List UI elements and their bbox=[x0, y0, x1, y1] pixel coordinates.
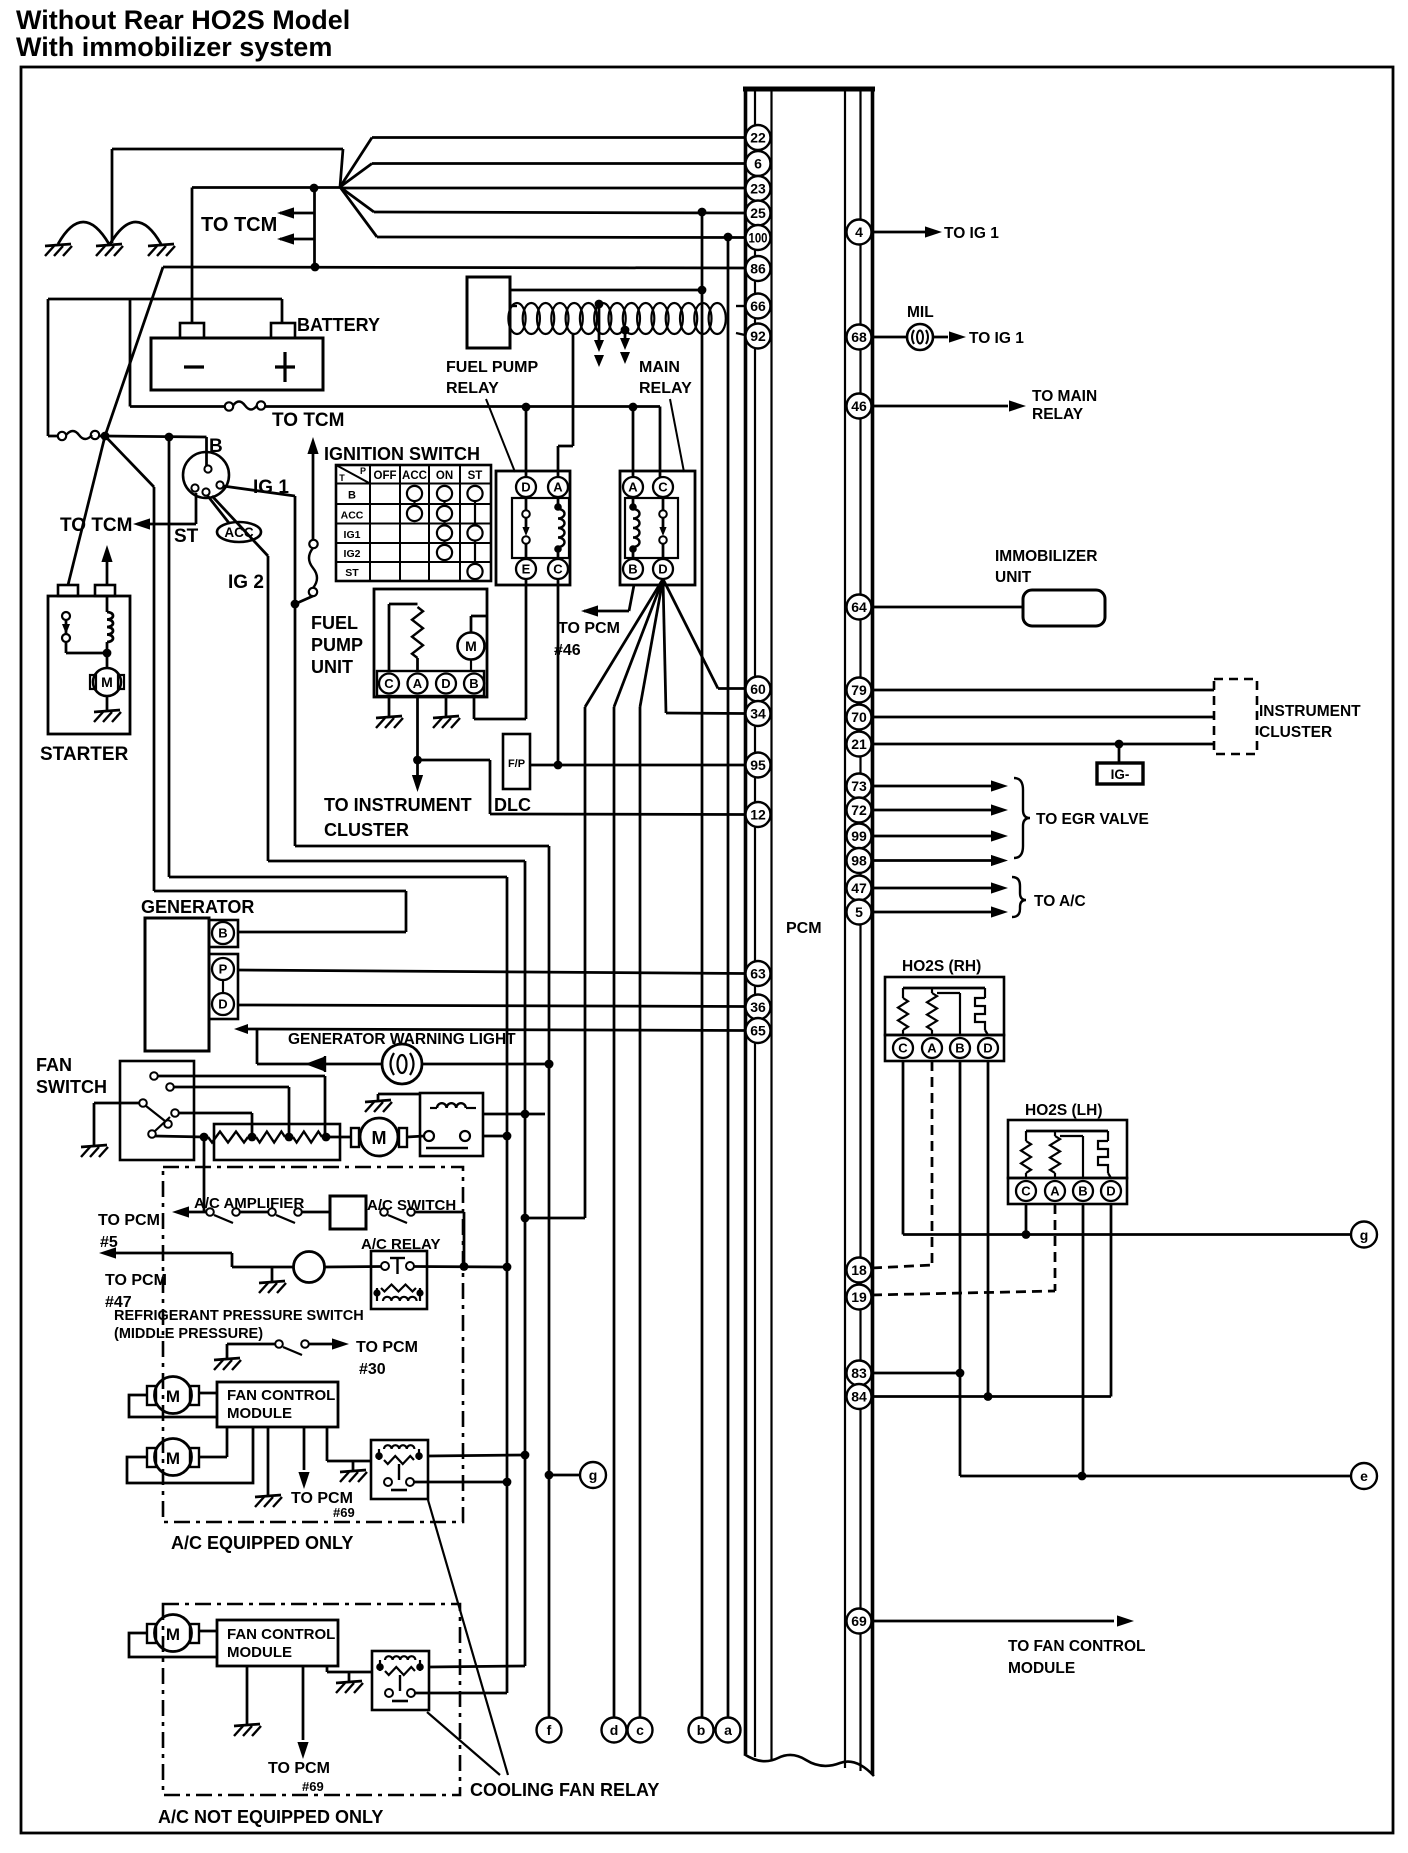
label TO TCM (top) bbox=[201, 214, 277, 236]
svg-text:D: D bbox=[218, 997, 227, 1012]
fan motor connector box bbox=[420, 1093, 483, 1156]
wire to pin 23 bbox=[340, 187, 745, 190]
label REFRIGERANT PRESSURE SWITCH bbox=[114, 1308, 364, 1342]
wire resistor tap down to AC amplifier bbox=[203, 1137, 206, 1212]
wire ST contact to TO TCM arrow bbox=[133, 493, 196, 530]
svg-text:PUMP: PUMP bbox=[311, 635, 363, 655]
ground module lower bbox=[234, 1666, 261, 1736]
label TO TCM (ignition) bbox=[272, 410, 344, 431]
wire M3 to module bbox=[129, 1631, 217, 1657]
label TO PCM 5 bbox=[98, 1212, 160, 1251]
svg-text:4: 4 bbox=[855, 224, 863, 240]
svg-text:D: D bbox=[521, 480, 530, 495]
svg-text:C: C bbox=[384, 676, 394, 691]
label A/C AMPLIFIER bbox=[194, 1195, 304, 1212]
svg-text:UNIT: UNIT bbox=[311, 657, 353, 677]
wire TO TCM arrow 1 bbox=[277, 207, 315, 218]
svg-text:CLUSTER: CLUSTER bbox=[1259, 724, 1332, 741]
svg-text:5: 5 bbox=[855, 904, 863, 920]
svg-text:MODULE: MODULE bbox=[227, 1644, 292, 1661]
svg-text:FAN CONTROL: FAN CONTROL bbox=[227, 1387, 335, 1404]
svg-text:Without Rear HO2S Model: Without Rear HO2S Model bbox=[16, 5, 350, 35]
wire TO PCM 5 arrow bbox=[172, 1206, 206, 1217]
fan control module upper bbox=[217, 1382, 338, 1427]
svg-text:C: C bbox=[1021, 1184, 1031, 1199]
main relay bbox=[620, 471, 695, 585]
wire junction to starter bbox=[68, 436, 105, 585]
label BATTERY bbox=[297, 315, 380, 335]
wire relay C to FP line bbox=[554, 579, 563, 769]
wire IG1 from rotor bbox=[223, 486, 295, 496]
label TO PCM 69 lower bbox=[268, 1760, 330, 1794]
pin 60 (PCM left) bbox=[746, 677, 771, 702]
svg-text:C: C bbox=[553, 562, 563, 577]
svg-text:OFF: OFF bbox=[374, 470, 397, 482]
wire TO TCM branch vertical bbox=[313, 188, 316, 267]
label TO IG 1 (pin 4) bbox=[944, 225, 999, 242]
fan motor M bbox=[351, 1118, 424, 1156]
wire main relay D to node d bbox=[614, 579, 663, 1717]
svg-text:STARTER: STARTER bbox=[40, 744, 129, 765]
wiring harness coil loops bbox=[508, 303, 745, 335]
wire generator B feed stair bbox=[105, 436, 406, 932]
svg-text:A/C RELAY: A/C RELAY bbox=[361, 1236, 440, 1253]
wire diagonal to fuse junction bbox=[105, 267, 163, 436]
svg-text:E: E bbox=[522, 562, 531, 577]
wire EGR arrow pin y=836 bbox=[873, 830, 1008, 841]
svg-text:TO TCM: TO TCM bbox=[60, 515, 132, 536]
svg-text:TO IG 1: TO IG 1 bbox=[944, 225, 999, 242]
node g right circle bbox=[1351, 1222, 1377, 1248]
label B bbox=[209, 436, 223, 457]
pin 4 (PCM right) bbox=[847, 220, 872, 245]
wire pin 70 to instrument cluster bbox=[873, 716, 1214, 719]
wire to pin 6 bbox=[372, 162, 745, 165]
ground fan connector bbox=[365, 1094, 420, 1112]
fan motor M3 bbox=[147, 1615, 199, 1652]
label A/C SWITCH bbox=[367, 1197, 456, 1214]
wire generator D to pin 36 bbox=[238, 1005, 745, 1007]
svg-text:ST: ST bbox=[174, 526, 199, 547]
battery bbox=[151, 323, 323, 390]
label FUEL PUMP UNIT bbox=[311, 613, 363, 677]
PCM label bbox=[786, 920, 822, 937]
wire relay2 top to stair bbox=[429, 1666, 525, 1667]
svg-text:34: 34 bbox=[750, 706, 766, 722]
pin 79 (PCM right) bbox=[847, 678, 872, 703]
ground fan switch bbox=[81, 1103, 139, 1157]
wire FP to pin 95 bbox=[530, 764, 745, 767]
svg-text:B: B bbox=[218, 926, 227, 941]
wire LH B to node e bbox=[1082, 1204, 1085, 1476]
A/C switch box bbox=[330, 1196, 366, 1229]
label IG 1 bbox=[253, 477, 289, 498]
label TO TCM (starter) bbox=[60, 515, 132, 536]
svg-text:COOLING FAN RELAY: COOLING FAN RELAY bbox=[470, 1780, 659, 1800]
pin 100 (PCM left) bbox=[746, 225, 771, 250]
ground trio with arcs bbox=[45, 149, 175, 256]
svg-text:B: B bbox=[348, 490, 356, 502]
wire battery plus rail bbox=[48, 299, 282, 436]
svg-text:A: A bbox=[628, 480, 638, 495]
wire connector to node b bbox=[510, 286, 706, 295]
svg-text:36: 36 bbox=[750, 999, 766, 1015]
pin 63 (PCM left) bbox=[746, 961, 771, 986]
ground cooling fan relay 1 bbox=[340, 1461, 367, 1482]
pin 68 (PCM right) bbox=[847, 325, 872, 350]
node b bbox=[689, 212, 714, 1743]
node a bbox=[716, 237, 741, 1743]
pin 18 (PCM right) bbox=[847, 1258, 872, 1283]
A/C amplifier contacts bbox=[206, 1208, 330, 1223]
svg-text:72: 72 bbox=[851, 802, 867, 818]
fan motor M1 bbox=[147, 1377, 199, 1414]
ACC oval contact bbox=[207, 495, 261, 542]
svg-text:UNIT: UNIT bbox=[995, 569, 1032, 586]
wire RH C to node g bbox=[903, 1061, 1351, 1239]
label STARTER bbox=[40, 744, 129, 765]
pin 72 (PCM right) bbox=[847, 798, 872, 823]
svg-text:#69: #69 bbox=[333, 1505, 355, 1520]
wire RH B to node e bbox=[956, 1061, 1351, 1480]
svg-text:F/P: F/P bbox=[508, 758, 525, 770]
svg-text:A: A bbox=[413, 676, 423, 691]
svg-text:INSTRUMENT: INSTRUMENT bbox=[1259, 703, 1361, 720]
wire TO TCM fusible link (IG1 tap) bbox=[291, 437, 319, 608]
wire M2 to module bbox=[127, 1427, 253, 1483]
ground fuel pump C bbox=[376, 697, 403, 728]
harness connector box bbox=[467, 277, 510, 348]
ground compressor bbox=[259, 1267, 286, 1293]
fuel pump unit bbox=[374, 589, 487, 697]
svg-text:D: D bbox=[658, 562, 667, 577]
svg-text:P: P bbox=[360, 466, 366, 476]
ignition switch rotor bbox=[183, 452, 229, 498]
harness branch arrow 1 bbox=[594, 300, 604, 367]
label IGNITION SWITCH bbox=[324, 444, 480, 464]
svg-text:GENERATOR: GENERATOR bbox=[141, 897, 254, 917]
svg-text:B: B bbox=[1078, 1184, 1087, 1199]
fan control module lower bbox=[217, 1620, 338, 1666]
label TO A/C bbox=[1034, 893, 1086, 910]
cooling fan relay 1 bbox=[371, 1440, 428, 1499]
pin 64 (PCM right) bbox=[847, 595, 872, 620]
svg-text:TO PCM: TO PCM bbox=[558, 620, 620, 637]
wire EGR arrow pin y=810 bbox=[873, 804, 1008, 815]
svg-text:TO EGR VALVE: TO EGR VALVE bbox=[1036, 811, 1149, 828]
wire pin 4 TO IG 1 bbox=[873, 226, 942, 237]
title text bbox=[16, 5, 350, 62]
svg-text:21: 21 bbox=[851, 736, 867, 752]
wire A/C arrow pin y=912 bbox=[873, 906, 1008, 917]
label FUEL PUMP RELAY bbox=[446, 359, 538, 397]
fuel pump relay bbox=[496, 471, 570, 585]
wire fanout diagonals to PCM pins bbox=[340, 138, 377, 238]
label A/C EQUIPPED ONLY bbox=[171, 1533, 353, 1553]
node fuse junction bbox=[101, 432, 110, 441]
svg-text:C: C bbox=[658, 480, 668, 495]
wire M1 to module bbox=[129, 1393, 217, 1417]
wire arrow to instrument cluster bbox=[412, 760, 423, 792]
svg-text:#30: #30 bbox=[359, 1361, 386, 1378]
svg-text:REFRIGERANT PRESSURE SWITCH: REFRIGERANT PRESSURE SWITCH bbox=[114, 1308, 364, 1324]
generator warning light bbox=[257, 1044, 553, 1084]
pin 12 (PCM left) bbox=[746, 802, 771, 827]
svg-text:TO A/C: TO A/C bbox=[1034, 893, 1086, 910]
svg-text:M: M bbox=[372, 1128, 387, 1148]
svg-text:98: 98 bbox=[851, 853, 867, 869]
svg-text:79: 79 bbox=[851, 682, 867, 698]
wire connector to relay verticals bbox=[483, 1114, 545, 1136]
svg-text:99: 99 bbox=[851, 828, 867, 844]
wire starter coil TO TCM arrow up bbox=[101, 545, 112, 585]
HO2S (RH) sensor bbox=[885, 977, 1004, 1061]
pin 92 (PCM left) bbox=[746, 324, 771, 349]
svg-text:FUEL PUMP: FUEL PUMP bbox=[446, 359, 538, 376]
svg-text:IG2: IG2 bbox=[344, 548, 361, 560]
label ST bbox=[174, 526, 199, 547]
svg-text:46: 46 bbox=[851, 398, 867, 414]
svg-text:TO INSTRUMENT: TO INSTRUMENT bbox=[324, 795, 472, 815]
pin 66 (PCM left) bbox=[746, 294, 771, 319]
node e circle bbox=[1351, 1463, 1377, 1489]
leader fuel pump relay bbox=[486, 399, 515, 472]
wire TO PCM 47 arrow bbox=[99, 1247, 232, 1267]
svg-text:92: 92 bbox=[750, 328, 766, 344]
wire battery-minus riser and top run bbox=[112, 149, 343, 323]
wire LH C to node g bbox=[1025, 1204, 1028, 1235]
svg-text:C: C bbox=[898, 1041, 908, 1056]
svg-text:69: 69 bbox=[851, 1613, 867, 1629]
ground fuel pump D bbox=[433, 697, 460, 728]
starter bbox=[48, 585, 130, 734]
svg-text:FUEL: FUEL bbox=[311, 613, 358, 633]
wire to pin 22 bbox=[372, 136, 745, 139]
instrument cluster dashed box bbox=[1214, 679, 1257, 754]
A/C switch contacts bbox=[380, 1208, 468, 1271]
fan switch bbox=[120, 1061, 194, 1160]
label TO MAIN RELAY bbox=[1032, 388, 1097, 423]
label COOLING FAN RELAY bbox=[470, 1780, 659, 1800]
svg-text:DLC: DLC bbox=[494, 795, 531, 815]
svg-text:A: A bbox=[927, 1041, 937, 1056]
pin 6 (PCM left) bbox=[746, 151, 771, 176]
svg-text:A/C EQUIPPED ONLY: A/C EQUIPPED ONLY bbox=[171, 1533, 353, 1553]
svg-text:TO MAIN: TO MAIN bbox=[1032, 388, 1097, 405]
wire TO TCM arrow 2 bbox=[277, 233, 315, 244]
wire warning light to pin 65 bbox=[234, 1024, 745, 1064]
svg-text:e: e bbox=[1360, 1468, 1368, 1484]
F/P connector bbox=[503, 734, 530, 789]
pin 22 (PCM left) bbox=[746, 125, 771, 150]
svg-text:A: A bbox=[553, 480, 563, 495]
svg-text:TO FAN CONTROL: TO FAN CONTROL bbox=[1008, 1638, 1146, 1655]
pin 46 (PCM right) bbox=[847, 394, 872, 419]
wire fuel pump B to relay E bbox=[474, 579, 526, 719]
svg-text:M: M bbox=[101, 674, 113, 690]
label TO EGR VALVE bbox=[1036, 811, 1149, 828]
svg-text:A: A bbox=[1050, 1184, 1060, 1199]
A/C compressor clutch circle bbox=[232, 1252, 381, 1283]
wire main relay B TO PCM 46 arrow bbox=[581, 585, 634, 617]
node c bbox=[628, 1718, 653, 1743]
wire IG1 stair to node f bbox=[295, 496, 553, 1717]
svg-text:M: M bbox=[465, 638, 477, 654]
node f bbox=[537, 1718, 562, 1743]
svg-text:18: 18 bbox=[851, 1262, 867, 1278]
brace A/C bbox=[1012, 877, 1026, 917]
svg-text:B: B bbox=[469, 676, 478, 691]
wire fuel pump A to pin 12 bbox=[413, 697, 745, 815]
refrigerant pressure switch contacts bbox=[227, 1338, 349, 1358]
wire junction to ignition B bbox=[105, 433, 207, 466]
pin 70 (PCM right) bbox=[847, 705, 872, 730]
wire to pin 100 bbox=[377, 233, 745, 242]
wire main relay D to pin 34 bbox=[663, 579, 745, 714]
wire to pin 25 bbox=[374, 208, 745, 217]
label TO IG 1 (pin 68) bbox=[969, 330, 1024, 347]
wire module lower TO PCM 69 arrow bbox=[297, 1666, 308, 1759]
ground cooling fan relay 2 bbox=[336, 1672, 363, 1693]
svg-text:A/C AMPLIFIER: A/C AMPLIFIER bbox=[194, 1195, 304, 1212]
svg-text:PCM: PCM bbox=[786, 920, 822, 937]
svg-text:6: 6 bbox=[754, 156, 762, 172]
svg-text:65: 65 bbox=[750, 1023, 766, 1039]
wire module TO PCM 69 arrow bbox=[298, 1427, 309, 1489]
svg-text:IGNITION SWITCH: IGNITION SWITCH bbox=[324, 444, 480, 464]
cooling fan relay 2 bbox=[372, 1651, 429, 1710]
svg-text:25: 25 bbox=[750, 205, 766, 221]
svg-text:ST: ST bbox=[468, 470, 483, 482]
table header labels bbox=[339, 466, 482, 579]
svg-text:P: P bbox=[219, 962, 228, 977]
svg-text:ST: ST bbox=[345, 567, 359, 579]
svg-text:70: 70 bbox=[851, 709, 867, 725]
wire pin 79 to instrument cluster bbox=[873, 689, 1214, 692]
svg-text:M: M bbox=[166, 1449, 180, 1468]
wire IG2 stair to cooling fan relays bbox=[268, 556, 529, 1666]
PCM module bus bbox=[743, 88, 875, 1776]
svg-text:d: d bbox=[610, 1722, 619, 1738]
svg-text:23: 23 bbox=[750, 181, 766, 197]
svg-text:M: M bbox=[166, 1625, 180, 1644]
svg-text:With immobilizer system: With immobilizer system bbox=[16, 32, 332, 62]
svg-text:FAN CONTROL: FAN CONTROL bbox=[227, 1626, 335, 1643]
pin 47 (PCM right) bbox=[847, 876, 872, 901]
immobilizer unit bbox=[873, 590, 1105, 626]
svg-text:73: 73 bbox=[851, 778, 867, 794]
node d bbox=[602, 1718, 627, 1743]
svg-text:MIL: MIL bbox=[907, 304, 934, 321]
pin 95 (PCM left) bbox=[746, 753, 771, 778]
svg-text:ON: ON bbox=[436, 470, 453, 482]
svg-text:a: a bbox=[724, 1722, 732, 1738]
label A/C NOT EQUIPPED ONLY bbox=[158, 1807, 383, 1827]
wire main relay D to node c bbox=[640, 579, 663, 1717]
svg-text:#69: #69 bbox=[302, 1779, 324, 1794]
ignition switch table bbox=[336, 465, 491, 581]
svg-text:FAN: FAN bbox=[36, 1055, 72, 1075]
label HO2S (RH) bbox=[902, 958, 981, 975]
svg-text:83: 83 bbox=[851, 1365, 867, 1381]
wire main relay D to pin 60 bbox=[663, 579, 745, 689]
svg-text:D: D bbox=[1106, 1184, 1115, 1199]
svg-text:f: f bbox=[547, 1722, 552, 1738]
label TO PCM 47 bbox=[105, 1272, 167, 1311]
label TO FAN CONTROL MODULE bbox=[1008, 1638, 1146, 1677]
wire generator P to pin 63 bbox=[238, 970, 745, 974]
svg-text:b: b bbox=[697, 1722, 706, 1738]
svg-text:60: 60 bbox=[750, 681, 766, 697]
svg-text:A/C NOT EQUIPPED ONLY: A/C NOT EQUIPPED ONLY bbox=[158, 1807, 383, 1827]
pin 36 (PCM left) bbox=[746, 995, 771, 1020]
pin 25 (PCM left) bbox=[746, 201, 771, 226]
wire EGR arrow pin y=786 bbox=[873, 780, 1008, 791]
svg-text:TO TCM: TO TCM bbox=[272, 410, 344, 431]
wire RH A dashed to pin 18 bbox=[872, 1061, 932, 1268]
wire relay2 bottom to stair bbox=[415, 1692, 507, 1695]
svg-text:B: B bbox=[209, 436, 223, 457]
svg-text:RELAY: RELAY bbox=[1032, 406, 1084, 423]
svg-text:47: 47 bbox=[851, 880, 867, 896]
svg-text:TO PCM: TO PCM bbox=[105, 1272, 167, 1289]
svg-text:g: g bbox=[1360, 1227, 1369, 1243]
label TO INSTRUMENT CLUSTER bbox=[324, 795, 472, 840]
wire LH A dashed to pin 19 bbox=[872, 1204, 1055, 1295]
wire IG feed stair to AC relay bbox=[169, 437, 511, 1693]
wire pin 46 TO MAIN RELAY bbox=[873, 400, 1026, 411]
pin 86 (PCM left) bbox=[746, 256, 771, 281]
wire relay1 top to stair bbox=[428, 1455, 525, 1456]
svg-text:RELAY: RELAY bbox=[639, 380, 692, 397]
leader cooling fan relay labels bbox=[427, 1500, 508, 1775]
svg-text:IG1: IG1 bbox=[344, 529, 361, 541]
wire pin 83 bbox=[873, 1372, 960, 1375]
wire pin 69 TO FAN CONTROL MODULE bbox=[873, 1615, 1134, 1626]
HO2S (LH) sensor bbox=[1008, 1120, 1127, 1204]
label MIL bbox=[907, 304, 934, 321]
svg-text:TO PCM: TO PCM bbox=[268, 1760, 330, 1777]
wire IG2 from rotor bbox=[212, 496, 268, 556]
A/C relay bbox=[371, 1251, 427, 1309]
svg-text:D: D bbox=[441, 676, 450, 691]
wire fan switch taps bbox=[155, 1076, 325, 1137]
label TO PCM 69 upper bbox=[291, 1490, 355, 1520]
svg-text:TO IG 1: TO IG 1 bbox=[969, 330, 1024, 347]
pin 19 (PCM right) bbox=[847, 1285, 872, 1310]
label MAIN RELAY bbox=[639, 359, 692, 397]
svg-text:12: 12 bbox=[750, 807, 766, 823]
pin 5 (PCM right) bbox=[847, 900, 872, 925]
pin 98 (PCM right) bbox=[847, 848, 872, 873]
resistor block (blower resistors) bbox=[200, 1124, 351, 1160]
MIL lamp bbox=[873, 324, 966, 350]
ground module upper bbox=[255, 1427, 282, 1507]
IG- box bbox=[1097, 744, 1143, 784]
label GENERATOR bbox=[141, 897, 254, 917]
svg-text:GENERATOR WARNING LIGHT: GENERATOR WARNING LIGHT bbox=[288, 1031, 516, 1048]
wire main relay D to mid vertical bbox=[521, 579, 663, 1222]
pin 99 (PCM right) bbox=[847, 824, 872, 849]
wire RH D to pin 84 wire bbox=[984, 1061, 993, 1401]
dashed box A/C not equipped only bbox=[163, 1604, 460, 1795]
svg-text:HO2S (RH): HO2S (RH) bbox=[902, 958, 981, 975]
wire A/C arrow pin y=888 bbox=[873, 882, 1008, 893]
pin 65 (PCM left) bbox=[746, 1018, 771, 1043]
label HO2S (LH) bbox=[1025, 1102, 1103, 1119]
pin 73 (PCM right) bbox=[847, 774, 872, 799]
pin 34 (PCM left) bbox=[746, 701, 771, 726]
